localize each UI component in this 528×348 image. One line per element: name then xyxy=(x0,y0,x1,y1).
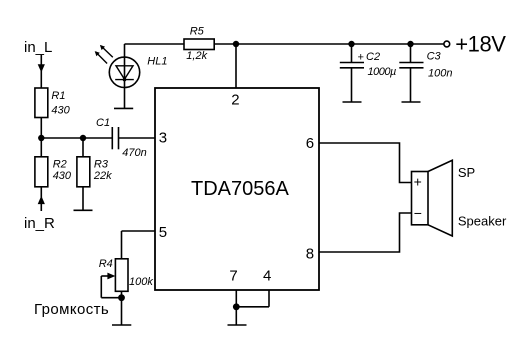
R4 wiper arrow head xyxy=(107,273,115,280)
ground below C3 xyxy=(402,101,421,103)
LED HL1 wire through symbol xyxy=(124,58,126,88)
wire R2 top xyxy=(40,138,42,157)
LED HL1 anode wire xyxy=(124,44,126,58)
wire R2 bottom / in_R lead xyxy=(40,187,42,211)
resistor R2 xyxy=(35,157,48,187)
LED HL1 cathode bar xyxy=(115,79,134,81)
LED HL1 circle xyxy=(109,57,139,87)
LED HL1 cathode down wire xyxy=(124,87,126,108)
speaker SP cone xyxy=(428,160,452,236)
capacitor C2 plate bottom xyxy=(340,67,364,69)
in_L arrow head xyxy=(38,64,45,72)
wire top supply rail left xyxy=(125,43,185,45)
svg-text:HL1: HL1 xyxy=(147,55,167,67)
node junction R1/R2 xyxy=(38,135,44,141)
in_R arrow head xyxy=(38,196,45,204)
LED HL1 cathode dot xyxy=(123,78,127,82)
wire pin7 down xyxy=(235,290,237,325)
resistor R5 xyxy=(184,39,214,50)
wire pin6 to speaker xyxy=(319,143,412,183)
wire pin5 horizontal xyxy=(122,230,156,232)
svg-text:−: − xyxy=(414,205,422,221)
svg-text:470n: 470n xyxy=(122,147,146,159)
ground below HL1 xyxy=(114,107,133,109)
svg-text:3: 3 xyxy=(159,130,167,147)
svg-text:430: 430 xyxy=(51,104,70,116)
svg-text:SP: SP xyxy=(458,165,475,180)
svg-text:+: + xyxy=(414,174,422,190)
svg-text:100k: 100k xyxy=(129,276,153,288)
wire left node horizontal xyxy=(41,137,112,139)
svg-text:6: 6 xyxy=(306,135,314,152)
wire C3 top xyxy=(410,44,412,62)
capacitor C3 plate top xyxy=(399,62,423,64)
node junction pin2/rail xyxy=(233,41,239,47)
wire R3 bottom xyxy=(82,187,84,210)
LED HL1 light arrow 2 xyxy=(96,52,108,64)
R4 wiper arrow line xyxy=(101,275,113,277)
svg-text:100n: 100n xyxy=(428,67,452,79)
LED HL1 light arrow 1 xyxy=(101,46,113,58)
wire top supply rail right xyxy=(214,43,444,45)
wire pin8 to speaker xyxy=(319,213,412,252)
wire C3 bottom xyxy=(410,68,412,102)
svg-text:1000µ: 1000µ xyxy=(368,66,396,78)
resistor R3 xyxy=(77,157,90,187)
svg-text:in_L: in_L xyxy=(24,39,52,56)
capacitor C1 plate right xyxy=(118,127,120,149)
node junction R4 wiper/bottom xyxy=(118,294,125,301)
svg-text:Speaker: Speaker xyxy=(458,213,507,228)
svg-text:4: 4 xyxy=(263,268,271,285)
svg-text:R1: R1 xyxy=(51,90,65,102)
svg-text:C2: C2 xyxy=(366,51,380,63)
resistor R1 xyxy=(35,88,48,118)
svg-text:C1: C1 xyxy=(96,117,110,129)
svg-text:430: 430 xyxy=(53,170,72,182)
wire C1 to pin3 xyxy=(119,137,156,139)
capacitor C3 plate bottom xyxy=(399,67,423,69)
node junction R3/C1 xyxy=(80,135,86,141)
svg-text:+: + xyxy=(357,52,364,64)
R4 wiper return vertical xyxy=(100,276,102,298)
wire R4 bottom xyxy=(121,291,123,325)
node junction pin7 ground xyxy=(233,303,240,310)
svg-text:Громкость: Громкость xyxy=(34,301,109,318)
svg-text:7: 7 xyxy=(229,268,237,285)
terminal +18V open circle xyxy=(444,41,450,47)
wire C2 bottom xyxy=(351,68,353,102)
svg-text:2: 2 xyxy=(231,91,239,108)
svg-text:C3: C3 xyxy=(427,50,442,62)
ground below C2 xyxy=(343,101,362,103)
op-amp U1 IC body TDA7056A xyxy=(155,88,319,290)
capacitor C1 plate left xyxy=(111,127,113,149)
ground below pin7 xyxy=(228,324,247,326)
capacitor C2 plate top xyxy=(340,62,364,64)
svg-text:+18V: +18V xyxy=(455,31,506,56)
wire pin5 down to R4 xyxy=(121,231,123,259)
wire C2 top xyxy=(351,44,353,62)
svg-text:8: 8 xyxy=(306,245,314,262)
svg-text:R4: R4 xyxy=(99,258,113,270)
svg-text:R5: R5 xyxy=(190,26,205,38)
R4 wiper return horizontal xyxy=(101,297,121,299)
speaker SP body rect xyxy=(412,172,429,225)
svg-text:22k: 22k xyxy=(93,170,112,182)
svg-text:1,2k: 1,2k xyxy=(186,50,207,62)
LED HL1 triangle xyxy=(116,66,133,80)
wire pin4 to pin7 xyxy=(236,306,269,308)
wire pin2 drop xyxy=(235,44,237,88)
wire pin4 down xyxy=(268,290,270,307)
svg-text:in_R: in_R xyxy=(24,215,55,232)
svg-text:TDA7056A: TDA7056A xyxy=(191,178,289,200)
node junction C2/rail xyxy=(348,41,354,47)
ground below R3 xyxy=(74,209,93,211)
svg-text:R3: R3 xyxy=(94,158,109,170)
wire R3 top xyxy=(82,138,84,157)
potentiometer R4 body xyxy=(115,259,128,292)
wire R1 bottom xyxy=(40,118,42,139)
node junction C3/rail xyxy=(407,41,413,47)
ground below R4 xyxy=(112,324,131,326)
svg-text:5: 5 xyxy=(159,224,167,241)
wire in_L lead xyxy=(40,55,42,88)
svg-text:R2: R2 xyxy=(53,158,67,170)
